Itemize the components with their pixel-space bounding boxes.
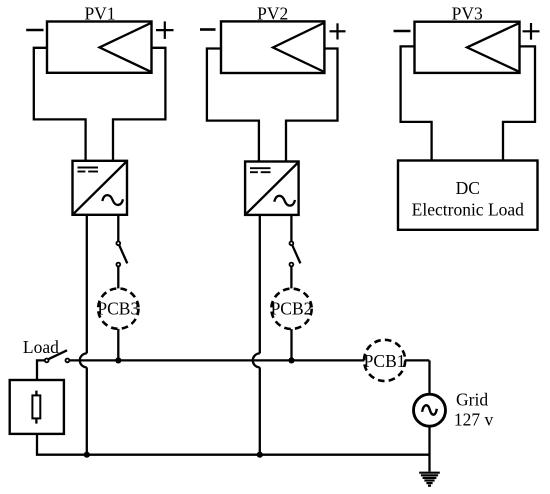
svg-text:Grid: Grid (456, 390, 488, 410)
svg-text:127 v: 127 v (454, 410, 494, 430)
svg-text:Load: Load (23, 337, 59, 357)
svg-text:PCB3: PCB3 (97, 298, 139, 318)
svg-text:PCB1: PCB1 (364, 351, 406, 371)
svg-text:Electronic Load: Electronic Load (412, 199, 524, 219)
svg-text:PCB2: PCB2 (271, 299, 313, 319)
svg-text:PV3: PV3 (452, 4, 483, 24)
svg-text:DC: DC (456, 178, 480, 198)
